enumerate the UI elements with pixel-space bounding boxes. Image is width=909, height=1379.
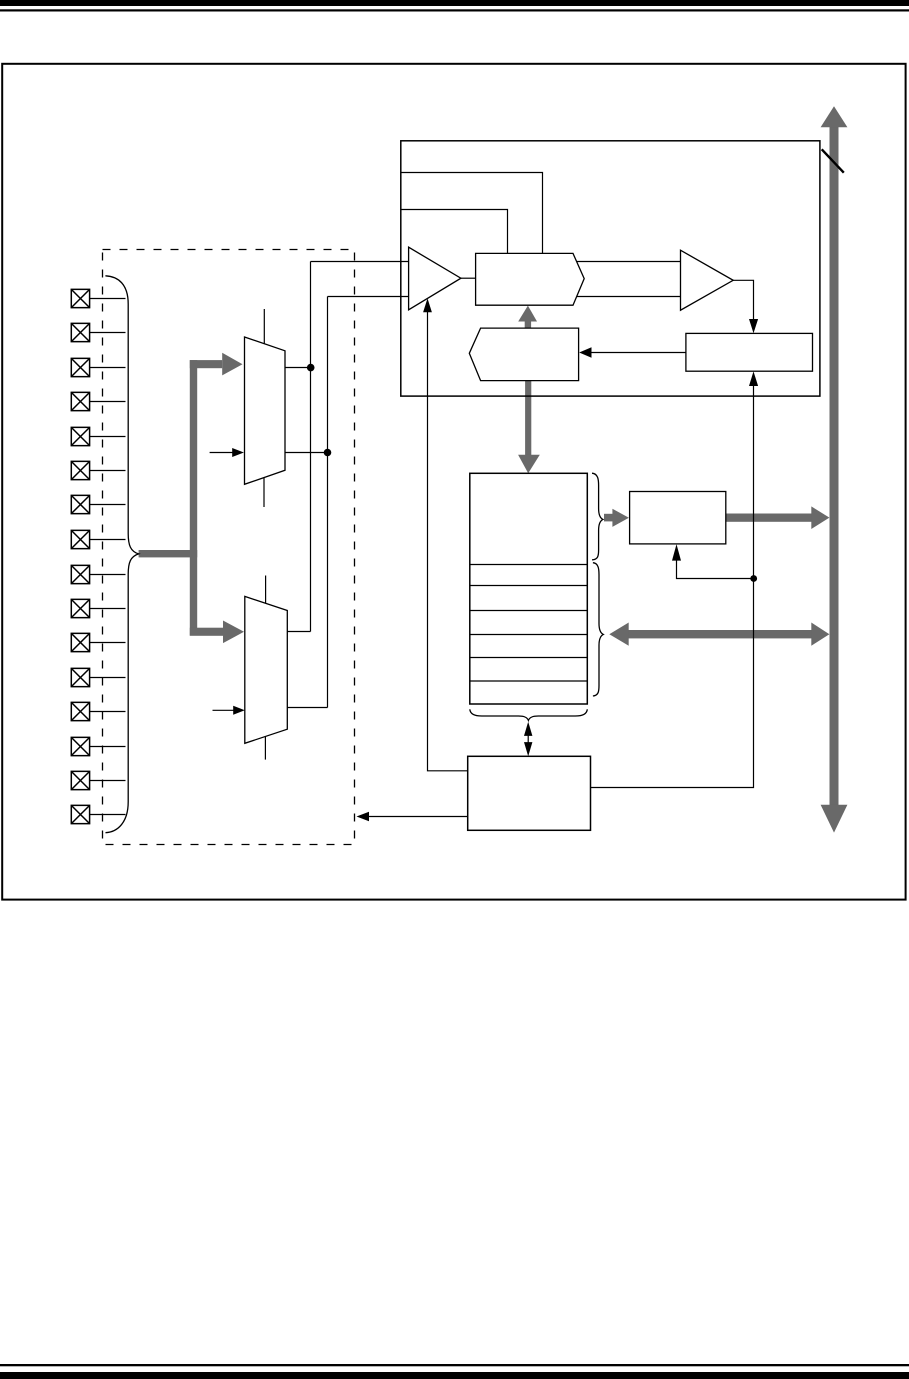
buffer to bus double arrow (gray) — [609, 623, 829, 646]
pin AN11 — [71, 668, 125, 686]
wire channel B to amp — [328, 296, 409, 298]
DAC block — [469, 328, 578, 381]
mux1 select tick top — [263, 309, 265, 344]
wire reference A (box edge to S/H top) — [401, 173, 543, 254]
mux MUX1 — [245, 337, 286, 484]
output register — [630, 492, 726, 544]
SAR register — [686, 333, 813, 371]
comparator U2 — [681, 250, 734, 310]
node A junction — [307, 364, 315, 372]
sample bus arrow (gray, down to buffer) — [518, 381, 540, 474]
pin AN13 — [71, 737, 125, 755]
S/H block (sample and hold) — [476, 253, 585, 305]
pin AN4 — [71, 427, 125, 445]
wire mux1 output B — [285, 452, 328, 454]
register to bus arrow (gray) — [726, 506, 830, 529]
buffer row line 1 — [470, 564, 588, 566]
pin AN14 — [71, 771, 125, 789]
wire control to buffer (double head) — [527, 733, 529, 745]
brace top word — [592, 473, 603, 560]
data bus (vertical, gray) — [821, 106, 848, 832]
result buffer (register stack) — [470, 473, 588, 704]
figure frame — [2, 64, 905, 900]
S/H feed arrow (gray, DAC to S/H) — [518, 306, 537, 329]
wire amp to S/H — [461, 277, 476, 279]
wire mux1 output A — [285, 367, 311, 369]
brace buffer bottom — [470, 709, 588, 720]
footer rule — [0, 1364, 909, 1366]
ADC module box — [401, 141, 820, 396]
footer bar — [0, 1372, 909, 1379]
pin AN15 — [71, 805, 125, 823]
wire S/H out A — [577, 261, 681, 263]
pin AN6 — [71, 495, 125, 513]
pin AN9 — [71, 599, 125, 617]
control logic box — [468, 756, 591, 830]
bus width slash — [822, 149, 844, 172]
wire S/H out B — [577, 296, 681, 298]
mux1 select tick bottom — [263, 478, 265, 508]
wire comparator to SAR register — [733, 280, 753, 319]
wire mux2 output A — [287, 631, 310, 633]
buffer row line 5 — [470, 657, 588, 659]
analog input dashed box — [103, 250, 355, 845]
mux2 select tick bottom — [264, 736, 266, 759]
op-amp U1 (input buffer) — [409, 247, 461, 310]
pin AN2 — [71, 358, 125, 376]
wire channel B vertical — [327, 297, 329, 708]
wire mux2 select — [213, 709, 235, 711]
pin AN8 — [71, 565, 125, 583]
node B junction — [324, 449, 332, 457]
word select arrow (gray, brace to output register) — [604, 509, 629, 527]
wire mux2 output B — [287, 707, 327, 709]
pin AN12 — [71, 702, 125, 720]
wire mux1 select — [210, 452, 233, 454]
pin AN1 — [71, 323, 125, 341]
pin AN10 — [71, 633, 125, 651]
header rule — [0, 9, 909, 11]
wire reference B (box edge to S/H top) — [401, 210, 508, 254]
pin AN7 — [71, 530, 125, 548]
buffer row line 2 — [470, 585, 588, 587]
brace buffer words — [593, 563, 603, 696]
node C junction — [750, 575, 757, 582]
buffer row line 3 — [470, 610, 588, 612]
mux2 select tick top — [265, 576, 267, 604]
wire riser to output register — [677, 560, 754, 578]
wire channel A vertical — [310, 262, 312, 632]
mux MUX2 — [245, 596, 287, 743]
pin AN0 — [71, 289, 125, 307]
wire control to input scan (arrow into dashed box) — [369, 816, 468, 818]
pin AN5 — [71, 461, 125, 479]
wire channel A to amp — [311, 261, 409, 263]
wire control to SAR (vertical riser) — [591, 386, 754, 788]
analog input bundle trunk (gray) — [139, 353, 244, 643]
wire SAR register to DAC — [592, 352, 686, 354]
buffer row line 4 — [470, 634, 588, 636]
pin bundle brace — [105, 276, 138, 833]
buffer row line 6 — [470, 680, 588, 682]
wire control to amp enable — [428, 311, 468, 771]
header bar — [0, 0, 909, 6]
pin AN3 — [71, 392, 125, 410]
